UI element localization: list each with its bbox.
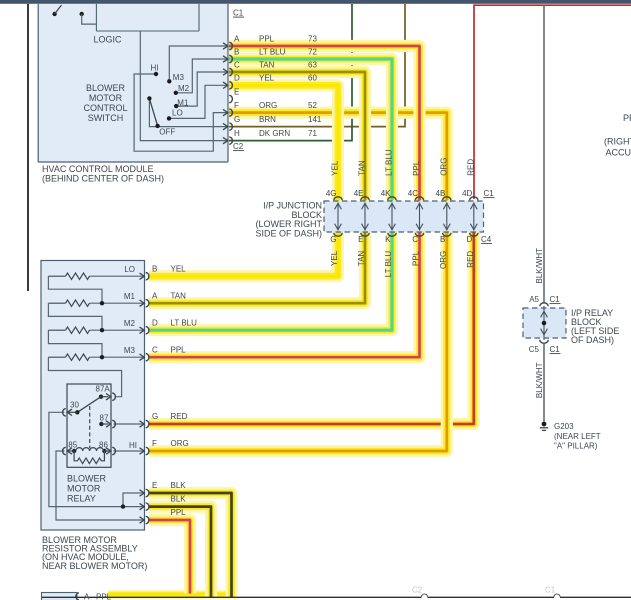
svg-text:G: G bbox=[152, 412, 158, 421]
node M1 tap bbox=[100, 301, 104, 305]
svg-text:HI: HI bbox=[129, 441, 137, 450]
relay coil 85-86 bbox=[67, 448, 111, 454]
svg-text:D: D bbox=[234, 74, 240, 83]
junction block pin 4G/G bbox=[334, 197, 342, 236]
svg-text:RED: RED bbox=[466, 251, 475, 268]
svg-text:4C: 4C bbox=[408, 189, 418, 198]
svg-text:71: 71 bbox=[308, 129, 317, 138]
svg-text:86: 86 bbox=[99, 441, 108, 450]
wire ORG resistor F to junction B bbox=[149, 233, 447, 452]
svg-text:LT BLU: LT BLU bbox=[259, 47, 286, 56]
svg-text:G: G bbox=[234, 115, 240, 124]
svg-text:ORG: ORG bbox=[440, 158, 449, 176]
wire TAN 63 HVAC C to junction 4E bbox=[229, 72, 365, 201]
svg-text:"A" PILLAR): "A" PILLAR) bbox=[554, 442, 598, 451]
wire BLK/WHT down right side bbox=[543, 5, 545, 303]
wire TAN resistor A to junction E bbox=[149, 233, 365, 304]
svg-text:BLK: BLK bbox=[171, 481, 187, 490]
junction block pin 4E/E bbox=[361, 197, 369, 236]
svg-text:PPL: PPL bbox=[96, 593, 112, 600]
wire PPL 73 HVAC A to junction 4C bbox=[229, 46, 420, 201]
svg-text:C2: C2 bbox=[412, 586, 423, 595]
relay movable contact 30 bbox=[67, 397, 101, 415]
svg-text:MOTOR: MOTOR bbox=[89, 93, 123, 103]
relay coil parallel resistor bbox=[74, 451, 104, 464]
svg-text:TAN: TAN bbox=[259, 60, 275, 69]
svg-text:PPL: PPL bbox=[171, 345, 187, 354]
wire switch LO to pin D bbox=[169, 85, 227, 118]
junction block pin 4K/K bbox=[388, 197, 396, 236]
svg-text:OF DASH): OF DASH) bbox=[571, 335, 614, 345]
svg-text:LO: LO bbox=[172, 108, 183, 117]
wire PPL blower motor A horizontal bbox=[108, 590, 237, 599]
wire BLK resistor E down bbox=[149, 493, 232, 597]
svg-text:C: C bbox=[234, 60, 240, 69]
svg-text:C5: C5 bbox=[529, 345, 540, 354]
svg-text:E: E bbox=[152, 481, 157, 490]
relay block pass-through bbox=[540, 303, 548, 343]
svg-text:87: 87 bbox=[100, 414, 109, 423]
node M3 tap bbox=[100, 355, 104, 359]
svg-text:ORG: ORG bbox=[259, 101, 277, 110]
svg-text:4E: 4E bbox=[354, 189, 364, 198]
wire LOGIC to pin H bbox=[140, 31, 227, 141]
wire ORG 52 HVAC F to junction 4B bbox=[229, 113, 447, 201]
svg-text:SIDE OF DASH): SIDE OF DASH) bbox=[255, 228, 322, 238]
relay actuator dashed link bbox=[89, 406, 91, 448]
svg-text:73: 73 bbox=[308, 34, 317, 43]
junction block pin 4D/D bbox=[470, 197, 478, 236]
svg-text:YEL: YEL bbox=[171, 264, 187, 273]
relay contact 87 bbox=[99, 422, 108, 426]
relay contact 87A bbox=[99, 395, 109, 399]
wire RED resistor G to junction D bbox=[149, 233, 474, 425]
I/P relay block bbox=[523, 308, 566, 338]
wire relay 87 to pin G bbox=[114, 423, 145, 425]
svg-text:72: 72 bbox=[308, 47, 317, 56]
HVAC pin connectors A-H bbox=[223, 42, 232, 144]
svg-text:TAN: TAN bbox=[171, 291, 187, 300]
switch contacts HI M3 M2 M1 LO OFF and pivot bbox=[147, 72, 178, 128]
wire pin E to BLK node bbox=[123, 493, 145, 507]
blower motor box (cropped) bbox=[42, 593, 78, 600]
wire YEL resistor B to junction G bbox=[149, 233, 338, 277]
svg-text:NEAR BLOWER MOTOR): NEAR BLOWER MOTOR) bbox=[42, 561, 147, 571]
svg-text:BLK: BLK bbox=[171, 495, 187, 504]
svg-text:4K: 4K bbox=[381, 189, 391, 198]
node BLK junction bbox=[121, 504, 125, 508]
svg-text:SWITCH: SWITCH bbox=[88, 113, 124, 123]
svg-text:CONTROL: CONTROL bbox=[83, 103, 127, 113]
svg-text:LT BLU: LT BLU bbox=[171, 318, 198, 327]
wire switch common to pin G bbox=[149, 98, 227, 126]
wire chain M1 to M2 tap bbox=[48, 303, 102, 330]
svg-text:C1: C1 bbox=[550, 295, 561, 304]
blower motor resistor assembly box bbox=[41, 261, 145, 531]
svg-text:LT BLU: LT BLU bbox=[385, 149, 394, 176]
resistor M2 bbox=[48, 327, 144, 333]
wire relay 30 to BLK row bbox=[49, 412, 145, 506]
svg-text:D: D bbox=[152, 318, 158, 327]
svg-text:M1: M1 bbox=[124, 292, 136, 301]
svg-text:OFF: OFF bbox=[159, 128, 175, 137]
resistor LO bbox=[48, 273, 144, 279]
svg-text:B: B bbox=[234, 47, 239, 56]
svg-text:M2: M2 bbox=[178, 84, 190, 93]
svg-text:F: F bbox=[152, 439, 157, 448]
svg-text:LO: LO bbox=[124, 265, 135, 274]
svg-text:PPL: PPL bbox=[412, 250, 421, 266]
svg-text:4D: 4D bbox=[462, 189, 472, 198]
wire chain LO to M1 tap bbox=[48, 276, 102, 303]
svg-text:PRESSURE: PRESSURE bbox=[623, 113, 631, 123]
svg-text:YEL: YEL bbox=[330, 250, 339, 266]
svg-text:(NEAR LEFT: (NEAR LEFT bbox=[554, 432, 601, 441]
wire BLK/WHT to ground bbox=[543, 343, 545, 422]
wire DK GRN 71 from pin H bbox=[229, 4, 352, 141]
svg-text:4G: 4G bbox=[326, 189, 337, 198]
svg-text:YEL: YEL bbox=[331, 160, 340, 176]
svg-text:M3: M3 bbox=[173, 73, 185, 82]
svg-text:HI: HI bbox=[151, 63, 159, 72]
svg-text:B: B bbox=[152, 264, 157, 273]
wire PPL resistor C to junction C bbox=[149, 233, 420, 358]
svg-text:DK GRN: DK GRN bbox=[259, 129, 290, 138]
svg-text:85: 85 bbox=[68, 441, 77, 450]
switch lever bbox=[149, 98, 157, 126]
svg-text:C: C bbox=[152, 345, 158, 354]
junction block pin 4C/C bbox=[415, 197, 423, 236]
ground G203 bbox=[540, 422, 548, 431]
svg-text:YEL: YEL bbox=[259, 74, 275, 83]
svg-text:MOTOR: MOTOR bbox=[67, 484, 101, 494]
wire PPL resistor to blower motor bbox=[149, 520, 190, 594]
svg-text:63: 63 bbox=[308, 60, 317, 69]
svg-text:A5: A5 bbox=[529, 295, 539, 304]
svg-text:C4: C4 bbox=[481, 235, 492, 244]
svg-text:C2: C2 bbox=[233, 142, 244, 151]
svg-text:87A: 87A bbox=[96, 385, 111, 394]
svg-text:60: 60 bbox=[308, 74, 317, 83]
HVAC control module box bbox=[38, 4, 228, 162]
svg-text:LT BLU: LT BLU bbox=[384, 251, 393, 278]
blower motor relay box bbox=[67, 384, 111, 467]
svg-text:BLOWER: BLOWER bbox=[86, 83, 126, 93]
top toolbar strip bbox=[0, 0, 631, 4]
svg-text:141: 141 bbox=[308, 115, 322, 124]
svg-text:E: E bbox=[358, 235, 363, 244]
wire LT BLU 72 HVAC B to junction 4K bbox=[229, 59, 392, 201]
svg-text:F: F bbox=[234, 101, 239, 110]
svg-text:BRN: BRN bbox=[259, 115, 276, 124]
wire YEL 60 HVAC D to junction 4G bbox=[229, 85, 338, 200]
svg-text:C1: C1 bbox=[484, 189, 495, 198]
svg-text:G: G bbox=[330, 235, 336, 244]
svg-text:M2: M2 bbox=[124, 319, 136, 328]
svg-text:M3: M3 bbox=[124, 346, 136, 355]
wire switch M2 to pin B bbox=[176, 59, 227, 93]
junction block pin 4B/B bbox=[443, 197, 451, 236]
node to LOGIC bbox=[80, 12, 97, 24]
wire switch M1 to pin C bbox=[176, 72, 227, 106]
resistor M3 bbox=[48, 354, 144, 360]
blower motor pin A bump bbox=[76, 593, 79, 600]
svg-text:PPL: PPL bbox=[412, 160, 421, 176]
svg-text:C1: C1 bbox=[545, 586, 556, 595]
svg-text:D: D bbox=[467, 235, 473, 244]
svg-text:A: A bbox=[84, 593, 90, 600]
svg-text:B: B bbox=[440, 235, 445, 244]
svg-text:RED: RED bbox=[171, 412, 188, 421]
svg-text:E: E bbox=[234, 87, 239, 96]
wire chain M3 to relay 87A bbox=[48, 357, 121, 397]
svg-text:PPL: PPL bbox=[259, 34, 275, 43]
svg-text:RED: RED bbox=[467, 159, 476, 176]
svg-text:(BEHIND CENTER OF DASH): (BEHIND CENTER OF DASH) bbox=[42, 174, 164, 184]
svg-text:G203: G203 bbox=[554, 422, 574, 431]
svg-text:30: 30 bbox=[70, 401, 79, 410]
wire switch M3 to pin A bbox=[169, 46, 227, 81]
svg-text:HVAC CONTROL MODULE: HVAC CONTROL MODULE bbox=[42, 164, 154, 174]
wire BRN 141 from pin G bbox=[229, 4, 405, 127]
relay pin connectors 87A 87 30 85 86 bbox=[63, 393, 116, 455]
wire relay 86 to pin F bbox=[114, 450, 145, 452]
wire chain M2 to M3 tap bbox=[48, 330, 102, 357]
svg-text:(RIGHT SIDE: (RIGHT SIDE bbox=[604, 137, 631, 147]
wire RED feed from top right bbox=[474, 5, 631, 199]
svg-text:BLK/WHT: BLK/WHT bbox=[535, 248, 544, 284]
bottom cropped component edge bbox=[42, 594, 631, 597]
svg-text:C1: C1 bbox=[233, 9, 244, 18]
svg-text:PPL: PPL bbox=[171, 508, 187, 517]
wire LT BLU resistor D to junction K bbox=[149, 233, 392, 331]
LOGIC sub-box bbox=[96, 4, 199, 31]
svg-text:BLK/WHT: BLK/WHT bbox=[535, 362, 544, 398]
svg-text:RELAY: RELAY bbox=[67, 494, 96, 504]
resistor M1 bbox=[48, 300, 144, 306]
svg-text:TAN: TAN bbox=[358, 160, 367, 176]
svg-text:ORG: ORG bbox=[171, 439, 189, 448]
svg-text:ORG: ORG bbox=[439, 251, 448, 269]
node M2 tap bbox=[100, 328, 104, 332]
svg-text:TAN: TAN bbox=[357, 251, 366, 267]
svg-text:LOGIC: LOGIC bbox=[93, 35, 122, 45]
svg-text:C: C bbox=[412, 235, 418, 244]
wire relay 85 to PPL row bbox=[56, 451, 145, 520]
svg-text:A: A bbox=[152, 291, 158, 300]
switch contact top-left (cropped) bbox=[52, 5, 61, 16]
svg-text:M1: M1 bbox=[177, 98, 189, 107]
svg-text:ACCUMULAT: ACCUMULAT bbox=[606, 148, 631, 158]
svg-text:4B: 4B bbox=[436, 189, 446, 198]
left crop border line bbox=[27, 4, 29, 291]
svg-text:A: A bbox=[234, 34, 240, 43]
svg-text:BLOWER: BLOWER bbox=[67, 474, 107, 484]
I/P junction block bbox=[324, 201, 484, 232]
wire switch HI to pin F bbox=[134, 74, 227, 151]
svg-text:H: H bbox=[234, 129, 240, 138]
svg-text:K: K bbox=[385, 235, 391, 244]
resistor assembly pin connectors bbox=[140, 272, 149, 523]
svg-text:C1: C1 bbox=[550, 345, 561, 354]
wire BLK relay 30 row down bbox=[149, 507, 211, 597]
svg-text:52: 52 bbox=[308, 101, 317, 110]
